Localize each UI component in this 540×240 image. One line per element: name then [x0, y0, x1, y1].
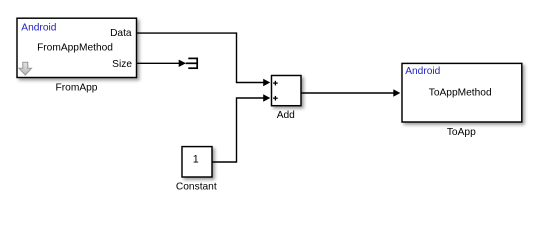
svg-text:Data: Data: [110, 28, 132, 39]
plus sign input 1: [273, 81, 278, 86]
svg-text:Android: Android: [405, 66, 440, 77]
wire Add -> ToApp: [301, 92, 396, 94]
wire Data: FromApp/1 -> Add/1: [137, 33, 266, 82]
arrowhead Constant->Add: [263, 94, 270, 102]
svg-text:Constant: Constant: [176, 182, 217, 193]
terminator icon: [186, 58, 198, 69]
wire Constant -> Add/2: [213, 98, 267, 162]
arrowhead Data->Add: [263, 79, 270, 87]
svg-text:ToAppMethod: ToAppMethod: [429, 88, 492, 99]
svg-text:1: 1: [193, 154, 199, 166]
svg-text:FromApp: FromApp: [56, 82, 98, 93]
block ToApp: [402, 63, 522, 122]
svg-text:Size: Size: [112, 59, 132, 70]
svg-text:FromAppMethod: FromAppMethod: [37, 43, 113, 54]
svg-text:Android: Android: [21, 23, 56, 34]
svg-text:ToApp: ToApp: [447, 127, 476, 138]
block FromApp: [17, 18, 137, 77]
block Add: [272, 76, 302, 106]
wire Size: FromApp/2 -> Terminator: [137, 62, 180, 64]
plus sign input 2: [273, 96, 278, 101]
block Constant: [182, 147, 212, 177]
arrowhead Size->Terminator: [179, 60, 186, 67]
svg-text:Add: Add: [277, 110, 295, 121]
icon download-arrow: [19, 62, 32, 75]
arrowhead Add->ToApp: [393, 89, 400, 97]
